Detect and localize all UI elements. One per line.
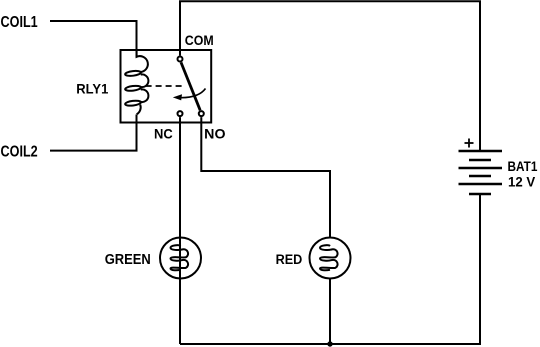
battery BAT1 plates [459,151,503,194]
bottom wire [180,194,480,344]
lamp RED circle [310,238,351,279]
top wire COM to battery [180,1,480,151]
svg-text:NO: NO [204,126,225,141]
dashed actuation line [146,85,182,87]
arrowhead [173,94,182,100]
actuation arrow arc [182,89,206,98]
svg-text:COIL1: COIL1 [1,14,38,31]
lamp RED filament [320,245,338,270]
relay coil winding [125,50,149,114]
wire RED lamp to bottom [329,279,331,344]
svg-text:12 V: 12 V [508,175,535,190]
svg-text:COM: COM [185,33,214,48]
svg-text:NC: NC [154,126,173,141]
wire COIL2 lead [50,115,137,151]
svg-text:RLY1: RLY1 [76,80,108,96]
lamp GREEN circle [160,238,201,279]
battery plus sign [465,139,474,148]
wire NC to GREEN lamp to bottom [179,117,181,344]
svg-text:GREEN: GREEN [105,252,151,268]
lamp GREEN filament [171,245,189,270]
switch arm COM-NO [181,62,200,110]
NO contact circle [199,111,204,116]
COM contact circle [178,57,183,62]
relay RLY1 box [121,50,212,123]
wire NO to RED lamp [201,117,330,237]
wire COIL1 lead [50,21,137,58]
NC contact circle [178,111,183,116]
junction node [327,341,332,346]
svg-text:RED: RED [276,252,303,267]
svg-text:COIL2: COIL2 [1,144,38,161]
svg-text:BAT1: BAT1 [508,159,538,174]
